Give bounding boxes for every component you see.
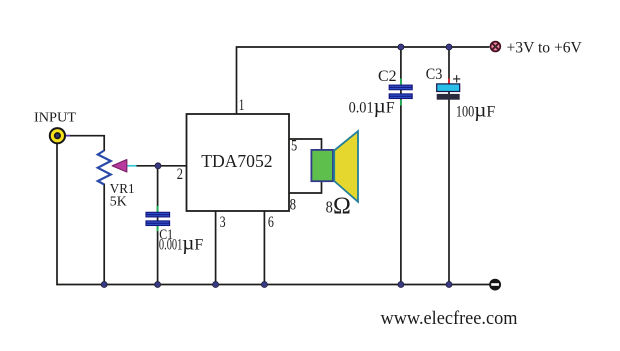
label 0.001uF (159, 230, 204, 254)
svg-text:INPUT: INPUT (34, 110, 76, 125)
label + polarity of C3 (452, 71, 461, 88)
svg-text:5: 5 (291, 138, 297, 155)
label 100uF (456, 98, 496, 122)
op-amp IC U1 TDA7052 body (187, 114, 290, 211)
potentiometer VR1 zigzag (98, 151, 111, 185)
svg-text:C2: C2 (378, 68, 397, 85)
pin 1 label (239, 97, 245, 114)
pin 3 label (220, 214, 226, 231)
label C1 (159, 227, 173, 243)
junction node C2 on ground rail (398, 282, 404, 288)
svg-text:6: 6 (268, 214, 274, 231)
speaker LS1 horn cone (334, 131, 358, 202)
wire bottom ground rail (57, 144, 490, 285)
svg-text:8: 8 (326, 198, 333, 217)
wire IC pin 5 and pin 8 to speaker (289, 139, 322, 193)
junction node C3 on top rail (446, 44, 452, 50)
svg-text:3: 3 (220, 214, 226, 231)
junction node VR1 bottom on ground rail (101, 282, 107, 288)
pin 2 label (177, 166, 183, 183)
junction node C3 on ground rail (446, 282, 452, 288)
capacitor C2 plates (389, 85, 412, 98)
svg-text:Ω: Ω (333, 193, 351, 219)
label 8 ohm (326, 193, 351, 219)
label 5K (110, 195, 127, 210)
junction node VR1 wiper / C1 (155, 163, 161, 169)
junction node pin 3 on ground rail (213, 282, 219, 288)
input jack J1 (50, 128, 65, 143)
label INPUT (34, 110, 76, 125)
capacitor C1 plates (146, 212, 170, 225)
junction node C1 bottom on ground rail (155, 282, 161, 288)
wire IC pin 6 to ground (263, 211, 265, 285)
ground terminal (490, 279, 501, 290)
supply terminal +V (491, 42, 501, 52)
wire VR1 wiper to IC pin 2 (127, 165, 188, 167)
svg-text:C3: C3 (426, 66, 443, 83)
pin 5 label (291, 138, 297, 155)
svg-text:8: 8 (290, 196, 296, 213)
svg-text:+3V to +6V: +3V to +6V (507, 40, 583, 57)
watermark www.elecfree.com (381, 309, 519, 329)
potentiometer VR1 wiper arrow (112, 160, 127, 172)
label +3V to +6V (507, 40, 583, 57)
capacitor C3 electrolytic plates (437, 84, 460, 100)
wire C1 branch down to ground (157, 166, 159, 285)
wire input jack to VR1 top (62, 136, 104, 151)
svg-text:www.elecfree.com: www.elecfree.com (381, 309, 519, 329)
junction node pin 6 on ground rail (261, 282, 267, 288)
svg-text:TDA7052: TDA7052 (201, 151, 272, 171)
label C3 (426, 66, 443, 83)
wire IC pin 3 to ground (215, 211, 217, 285)
wire top rail from pin1 to +V terminal (237, 47, 490, 114)
pin 6 label (268, 214, 274, 231)
wire C2 branch top rail to ground rail (400, 47, 402, 285)
junction node C2 on top rail (398, 44, 404, 50)
pin 8 label (290, 196, 296, 213)
svg-text:+: + (452, 71, 461, 88)
svg-text:1: 1 (239, 97, 245, 114)
label C2 (378, 68, 397, 85)
label VR1 (110, 182, 135, 197)
svg-text:5K: 5K (110, 195, 127, 210)
label 0.01uF (349, 93, 395, 117)
wire VR1 bottom to ground rail (103, 184, 105, 285)
wire C3 branch top rail to ground rail (448, 47, 450, 285)
svg-text:2: 2 (177, 166, 183, 183)
speaker LS1 driver body (311, 150, 333, 181)
